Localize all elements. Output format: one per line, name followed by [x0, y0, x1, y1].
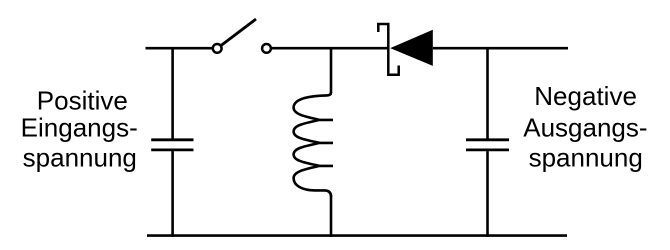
diode D1 Zener, cathode bar with hooks — [378, 24, 398, 75]
wire left branch upper — [171, 47, 174, 139]
diode D1 triangle (anode, pointing left) — [390, 30, 433, 66]
wire inductor bottom lead — [330, 195, 333, 237]
wire switch to diode — [271, 47, 387, 50]
wire inductor top lead — [330, 47, 333, 93]
capacitor C2 (output) — [466, 140, 509, 150]
wire bottom rail — [147, 234, 567, 237]
wire diode to top-right corner — [433, 47, 568, 50]
wire right branch upper — [486, 47, 489, 139]
svg-text:Eingangs-: Eingangs- — [21, 113, 138, 143]
svg-text:Ausgangs-: Ausgangs- — [523, 112, 647, 142]
wire left branch lower — [171, 151, 174, 237]
svg-text:spannung: spannung — [23, 143, 137, 173]
svg-text:spannung: spannung — [529, 142, 643, 172]
capacitor C1 (input) — [151, 140, 193, 150]
svg-text:Negative: Negative — [534, 81, 637, 111]
wire right branch lower — [486, 151, 489, 237]
svg-text:Positive: Positive — [37, 85, 128, 115]
switch S1 (open) — [213, 19, 271, 53]
wire top rail left segment — [146, 47, 213, 50]
inductor L1 (4 loops) — [294, 92, 333, 196]
